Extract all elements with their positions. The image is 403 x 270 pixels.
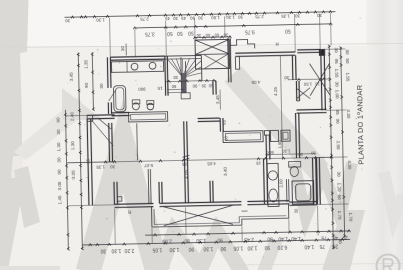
svg-text:2.20: 2.20 (124, 247, 134, 253)
svg-text:60: 60 (337, 194, 342, 200)
extension lines left (67, 114, 87, 116)
closet X right large (310, 63, 331, 95)
closet edge line left bedroom (136, 123, 139, 160)
svg-text:30: 30 (294, 13, 300, 18)
wall top of bathroom (110, 56, 164, 57)
svg-text:1.05: 1.05 (233, 245, 243, 251)
svg-text:45: 45 (222, 119, 227, 124)
watermark diagonal band center-right (233, 74, 320, 172)
small landing rect (181, 93, 190, 99)
svg-text:30: 30 (110, 164, 116, 169)
svg-text:1.55: 1.55 (345, 72, 350, 81)
svg-text:1.30: 1.30 (111, 247, 121, 253)
wall stub left bedroom lower (147, 169, 150, 204)
svg-text:15: 15 (314, 81, 319, 86)
watermark bottom band right of center (262, 240, 276, 270)
dim chain bottom outer (82, 239, 350, 245)
svg-text:50: 50 (167, 30, 173, 36)
svg-text:2.75: 2.75 (140, 17, 149, 22)
bedroom divider wall vertical (184, 121, 186, 203)
extension lines top (109, 18, 112, 57)
svg-text:90: 90 (57, 169, 62, 175)
small square detail left room (117, 197, 122, 202)
svg-text:90: 90 (220, 245, 226, 251)
left wing left wall (87, 119, 89, 205)
svg-text:90: 90 (84, 82, 89, 88)
watermark bottom edge strip (0, 266, 60, 270)
corner block solid (319, 49, 325, 55)
left wing inner diagonal 2 (92, 120, 114, 146)
extension lines right (323, 48, 345, 50)
interior dim line middle (67, 157, 332, 163)
watermark zigzag bottom-center (158, 232, 244, 270)
svg-text:50: 50 (345, 58, 350, 64)
dim chain right inner (329, 45, 333, 249)
svg-text:1.40: 1.40 (304, 243, 314, 249)
wc partition wall (285, 179, 287, 202)
svg-text:90: 90 (56, 117, 61, 123)
svg-text:1.35: 1.35 (281, 14, 290, 19)
wall right mid vertical (295, 113, 298, 158)
center wall step vertical (219, 118, 221, 131)
extension line x128 above plan (125, 44, 127, 56)
svg-text:60: 60 (265, 151, 270, 156)
svg-text:1.50: 1.50 (211, 15, 220, 20)
svg-text:45: 45 (165, 16, 171, 21)
svg-text:3.05: 3.05 (71, 170, 76, 179)
svg-text:4.05: 4.05 (251, 80, 260, 85)
left room inner wall (113, 182, 115, 204)
dim line suite y81.5 (288, 78, 330, 81)
balcony step detail (242, 210, 248, 212)
shaft double cell with X diagonals (195, 39, 230, 69)
wc toilet (289, 161, 301, 167)
svg-text:30: 30 (336, 171, 341, 177)
svg-text:2.75: 2.75 (255, 14, 264, 19)
wc left wall (263, 159, 266, 204)
watermark left edge band with top block (0, 0, 29, 270)
svg-text:15: 15 (256, 161, 262, 166)
wall right of stairs vertical (212, 81, 214, 95)
wc shower tray (292, 181, 314, 204)
svg-text:1.00: 1.00 (335, 90, 340, 99)
svg-text:2.80: 2.80 (336, 141, 341, 150)
left wing corner block (87, 115, 93, 121)
wardrobe cabinet (129, 112, 168, 122)
svg-text:30: 30 (316, 13, 322, 18)
svg-text:75: 75 (319, 243, 325, 249)
bidet (147, 103, 154, 110)
watermark bottom-right wedge (322, 210, 365, 270)
svg-text:30: 30 (334, 48, 339, 54)
right edge scan shading (0, 0, 1, 1)
svg-text:4.65: 4.65 (207, 161, 216, 166)
svg-text:3.75: 3.75 (145, 30, 155, 36)
svg-text:1.30: 1.30 (282, 149, 291, 154)
svg-text:1.35: 1.35 (83, 59, 88, 68)
svg-text:1.45: 1.45 (57, 195, 62, 204)
svg-text:50: 50 (188, 30, 194, 36)
wall stub B corner (209, 181, 211, 202)
svg-text:3.45: 3.45 (69, 72, 74, 81)
balcony outline (151, 204, 288, 227)
wall top-right room top (297, 48, 320, 50)
svg-text:9.75: 9.75 (245, 28, 255, 34)
svg-text:90: 90 (264, 244, 270, 250)
left wing top wall (87, 114, 114, 117)
svg-text:95: 95 (334, 59, 339, 65)
svg-text:3.45: 3.45 (215, 95, 220, 104)
svg-text:30: 30 (100, 247, 106, 253)
extension line room width 4.25 (280, 55, 282, 158)
svg-text:3.40: 3.40 (223, 167, 228, 176)
svg-text:60: 60 (205, 33, 210, 38)
bathtub (113, 86, 126, 112)
svg-text:30: 30 (196, 33, 201, 38)
dim chain bottom inner (145, 231, 350, 235)
dim chain left inner (78, 53, 82, 250)
svg-text:90: 90 (335, 118, 340, 124)
svg-text:90: 90 (171, 84, 176, 89)
watermark chevron left-center (88, 146, 158, 270)
svg-text:1.05: 1.05 (152, 246, 162, 252)
svg-text:30: 30 (223, 32, 228, 37)
cabinet rects below step wall (270, 130, 278, 141)
svg-text:30: 30 (310, 151, 315, 156)
svg-text:6.20: 6.20 (277, 244, 287, 250)
svg-text:1.55: 1.55 (334, 69, 339, 78)
wc bottom wall (289, 201, 316, 204)
wall right mid step horizontal (296, 108, 326, 111)
toilet (132, 103, 139, 110)
svg-text:90: 90 (297, 152, 302, 157)
svg-text:30: 30 (173, 75, 178, 80)
svg-text:30: 30 (201, 83, 206, 88)
wall stub below hall right (295, 81, 297, 101)
svg-text:1.30: 1.30 (169, 246, 179, 252)
svg-text:2.40: 2.40 (69, 112, 74, 121)
svg-text:3.05: 3.05 (57, 181, 62, 190)
stair landing lines (167, 88, 184, 90)
svg-text:90: 90 (190, 16, 196, 21)
wall break marks (182, 155, 189, 157)
wc right wall (311, 158, 314, 205)
svg-text:PLANTA DO 1ºANDAR: PLANTA DO 1ºANDAR (355, 85, 366, 165)
wall hall left foot (235, 57, 239, 70)
faint crease bottom right (230, 264, 403, 266)
svg-text:60: 60 (214, 33, 219, 38)
dim chain top B (135, 24, 331, 28)
svg-text:1.70: 1.70 (337, 211, 342, 220)
registered trademark circle R (377, 255, 400, 270)
wall stub A (158, 182, 160, 203)
svg-text:30: 30 (334, 82, 339, 88)
paper crease line (0, 44, 403, 48)
svg-text:15: 15 (157, 86, 163, 91)
svg-text:1.30: 1.30 (203, 245, 213, 251)
wc laundry oval (269, 189, 278, 202)
svg-text:1.30: 1.30 (247, 244, 257, 250)
stair winder fan rays (167, 59, 182, 78)
svg-text:1.30: 1.30 (96, 17, 105, 22)
svg-text:900: 900 (138, 87, 146, 92)
small column box (264, 131, 269, 136)
center wardrobe band (223, 131, 263, 143)
svg-text:60: 60 (224, 135, 229, 140)
svg-text:30: 30 (120, 46, 125, 52)
svg-text:45: 45 (181, 16, 187, 21)
wall bathroom left vertical (106, 57, 109, 88)
svg-text:90: 90 (188, 246, 194, 252)
svg-text:50: 50 (285, 28, 291, 34)
watermark W right-center (294, 163, 352, 217)
svg-text:30: 30 (198, 15, 204, 20)
wc basin column (267, 163, 279, 206)
svg-text:2.00: 2.00 (278, 178, 283, 187)
main bottom wall (114, 202, 153, 205)
dim chain right outer (341, 47, 345, 237)
dim chain left outer (65, 110, 68, 250)
watermark branch upper faint (14, 97, 88, 160)
svg-text:50: 50 (177, 30, 183, 36)
wall below bathroom / wardrobe band (112, 111, 130, 113)
svg-text:1.30: 1.30 (226, 15, 235, 20)
stair enclosure walls (164, 56, 167, 96)
svg-text:1.50: 1.50 (303, 82, 312, 87)
watermark small triangle mid-left (62, 88, 103, 120)
wall top-right room right vertical (321, 49, 322, 110)
svg-text:30: 30 (56, 157, 61, 163)
wall hall top horizontal (235, 52, 295, 53)
wc sub dim line (265, 154, 316, 155)
svg-text:30: 30 (345, 49, 350, 55)
chimney hook detail (231, 39, 255, 49)
stair central stringer dark (180, 57, 183, 92)
dim chain left small (92, 52, 93, 110)
svg-text:1.20: 1.20 (337, 183, 342, 192)
svg-text:30: 30 (173, 16, 179, 21)
svg-text:1.70: 1.70 (348, 212, 353, 221)
svg-text:4.30: 4.30 (347, 160, 352, 169)
watermark left band white notch (11, 156, 23, 178)
svg-text:30: 30 (56, 129, 61, 135)
svg-text:30: 30 (294, 208, 299, 213)
closet X left (296, 88, 310, 99)
dark stringer wall right of shaft (227, 38, 230, 82)
dim chain top A (65, 12, 336, 18)
main drawing rotated slightly (0, 0, 1, 1)
svg-text:30: 30 (99, 83, 104, 89)
right lower wall vertical (315, 158, 318, 205)
top light strip (0, 0, 403, 46)
watermark far right partial faint (384, 172, 403, 218)
svg-text:5.07: 5.07 (144, 163, 153, 168)
svg-text:1.30: 1.30 (70, 141, 75, 150)
center wall horizontal upper (198, 117, 220, 119)
svg-text:30: 30 (65, 18, 71, 23)
watermark branch stub lower (14, 166, 40, 228)
svg-text:4.25: 4.25 (273, 86, 278, 95)
stair dim line with 90s (165, 80, 215, 81)
left wing door swing diagonal (99, 118, 111, 129)
svg-text:1.35: 1.35 (96, 164, 105, 169)
bathroom counter with two sinks (111, 61, 163, 73)
svg-text:30: 30 (237, 15, 243, 20)
svg-text:20: 20 (332, 243, 338, 249)
svg-text:30: 30 (284, 75, 290, 80)
extension lines bottom (114, 209, 117, 244)
balcony X cross (163, 205, 232, 225)
door swing bathroom (109, 90, 117, 101)
wall down from step to wc (265, 135, 268, 160)
svg-text:4.30: 4.30 (346, 109, 351, 118)
svg-text:1.30: 1.30 (56, 142, 61, 151)
scan speckle (158, 48, 159, 49)
wall hall right vertical (291, 56, 294, 80)
dim chain top C small (194, 36, 231, 39)
svg-text:90: 90 (192, 84, 197, 89)
